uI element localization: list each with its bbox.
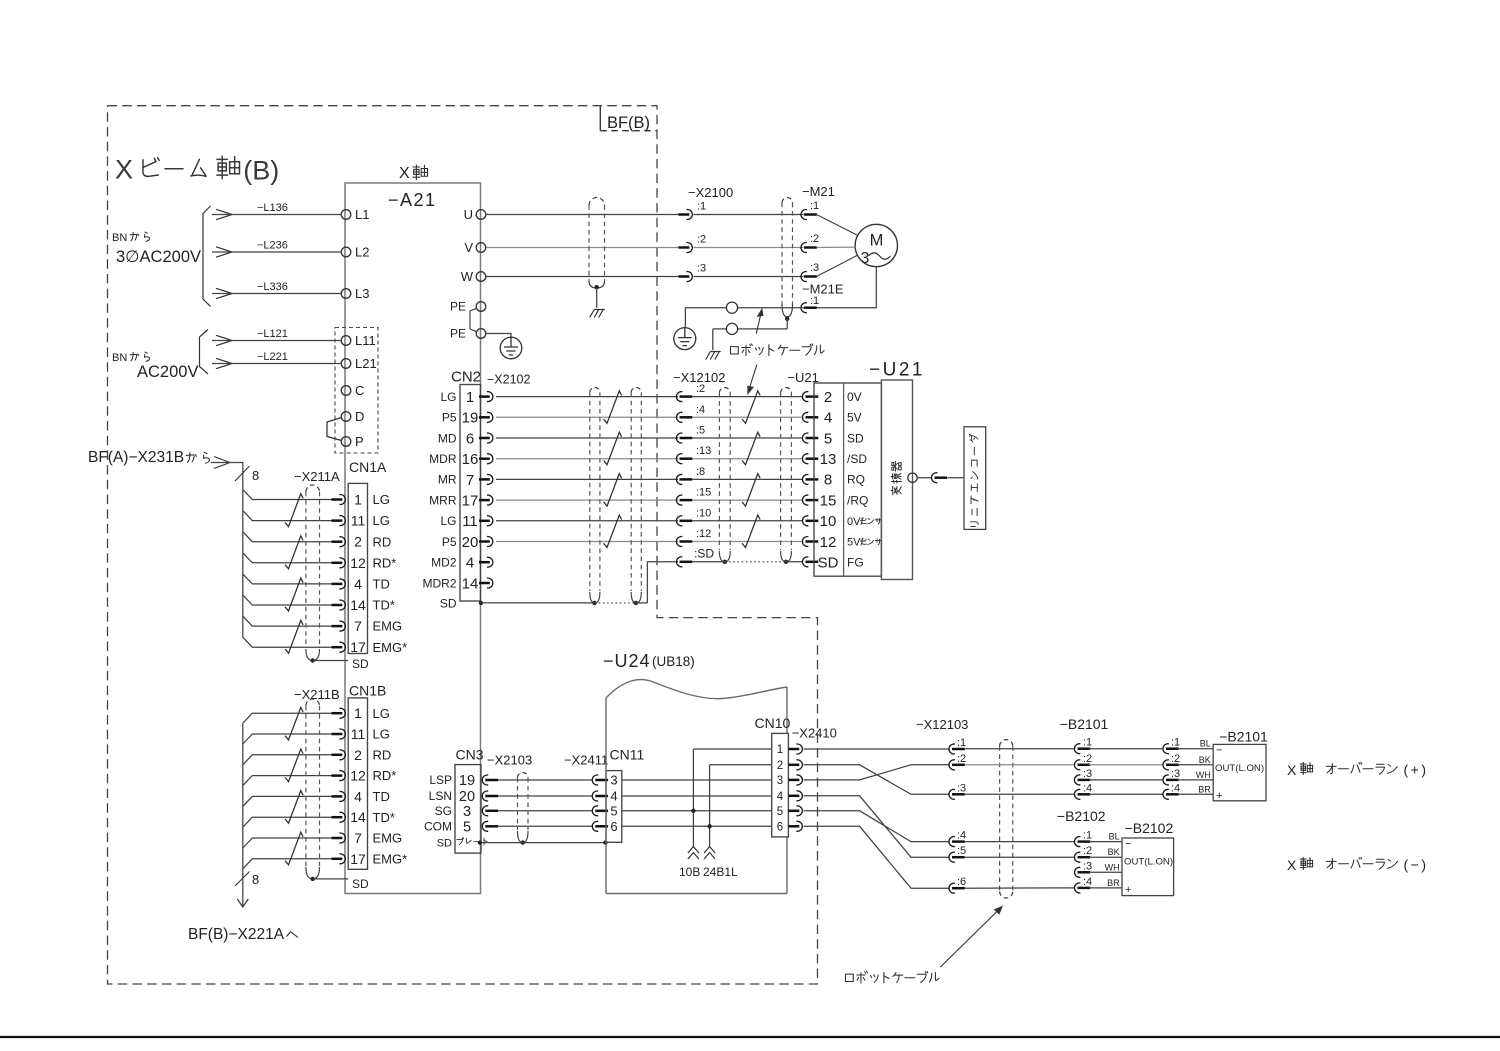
svg-text:6: 6 <box>777 821 783 833</box>
wire X12103 to B2101:2 <box>965 764 1075 766</box>
wire CN10 to X12103:5 <box>804 796 949 857</box>
wire CN10 to X12103:6 <box>804 826 949 888</box>
input arrow −L121 <box>216 335 232 345</box>
svg-text:+: + <box>1216 790 1222 802</box>
connector X2411 row1 <box>592 775 608 785</box>
connector B2102 :4 <box>1074 883 1090 893</box>
connector X211A to CN1A-7 <box>332 621 346 631</box>
dashed border <box>108 106 818 984</box>
svg-text::8: :8 <box>696 466 705 478</box>
svg-text:FG: FG <box>847 556 864 570</box>
svg-text:EMG*: EMG* <box>373 851 408 866</box>
svg-text:BK: BK <box>1108 847 1120 857</box>
twist CN1A pair2 <box>285 536 303 569</box>
wire CN2-7 to X12102:8 <box>496 478 678 480</box>
wire B2101 cable :3 <box>1089 779 1163 781</box>
connector U21 row2 <box>802 412 818 422</box>
svg-text::3: :3 <box>697 263 706 275</box>
svg-text:17: 17 <box>350 639 366 655</box>
svg-text::2: :2 <box>697 234 706 246</box>
wire CN1A pin11 <box>243 511 333 521</box>
wire CN1A pin12 <box>243 553 333 563</box>
wire CN2-17 to X12102:15 <box>496 499 678 501</box>
connector CN10-2 / X2410 <box>789 760 803 770</box>
wire −L121 <box>212 340 341 342</box>
svg-text:1: 1 <box>466 389 474 406</box>
linear encoder box <box>964 427 986 530</box>
connector X211B to CN1B-4 <box>332 791 346 801</box>
svg-text:X: X <box>1287 762 1297 778</box>
connector B2101 col2 :4 <box>1163 789 1179 799</box>
connector X12103:4 <box>949 837 965 847</box>
wire to B2102 sensor BL <box>1089 841 1122 843</box>
svg-text:CN1B: CN1B <box>349 683 386 699</box>
connector M21:2 <box>801 243 817 253</box>
svg-text:WH: WH <box>1105 862 1120 872</box>
svg-text:P: P <box>355 434 364 449</box>
svg-text:5: 5 <box>824 430 832 447</box>
wire U21 to encoder connector <box>917 477 931 479</box>
CN3 SD bus <box>480 842 606 844</box>
twist X12102 pair2 <box>742 432 760 465</box>
wire CN2-1 to X12102:2 <box>496 396 678 398</box>
label X-axis kanji <box>413 165 428 180</box>
svg-text::15: :15 <box>696 487 711 499</box>
X211A shield drain <box>313 660 349 662</box>
svg-text:8: 8 <box>252 468 259 483</box>
input arrow −L221 <box>216 358 232 368</box>
svg-text:8: 8 <box>252 872 259 887</box>
U21 output terminal <box>908 473 917 482</box>
svg-text:/RQ: /RQ <box>847 493 868 507</box>
wire CN10-1 to X12103:1 <box>804 748 949 750</box>
svg-text::4: :4 <box>1083 876 1092 888</box>
svg-text:16: 16 <box>462 451 479 468</box>
svg-text::3: :3 <box>810 262 819 274</box>
wire M21:2 to motor <box>817 246 856 248</box>
24B1L arrows <box>704 847 715 860</box>
shield robot cable X12103 <box>1000 740 1013 747</box>
svg-text:−L136: −L136 <box>257 202 288 214</box>
label robot cable (lower) <box>846 971 940 983</box>
svg-text:EMG*: EMG* <box>373 640 408 655</box>
svg-text:L2: L2 <box>355 245 369 260</box>
wire CN1A pin1 <box>243 490 333 500</box>
wire CN3-3 to CN11 <box>498 810 592 812</box>
connector CN10-4 / X2410 <box>789 791 803 801</box>
plate kana <box>457 838 487 845</box>
wire X12102:5 to U21 <box>693 437 804 439</box>
wire CN1B pin12 <box>243 776 333 786</box>
connector CN2-16 / X2102 <box>479 454 493 464</box>
connector X12102:10 <box>676 516 692 526</box>
wire to B2101 sensor WH <box>1178 779 1214 781</box>
he <box>287 932 298 938</box>
svg-text::1: :1 <box>810 200 819 212</box>
wire CN11-5 to CN10-5 <box>622 810 772 812</box>
svg-text:−L221: −L221 <box>257 351 288 363</box>
connector CN10-6 / X2410 <box>789 821 803 831</box>
sensa kana <box>860 539 881 545</box>
shield to drain wire <box>786 319 788 329</box>
connector CN3 box <box>455 765 481 854</box>
svg-text:20: 20 <box>459 789 475 805</box>
connector X211B to CN1B-2 <box>332 750 346 760</box>
connector CN10-1 / X2410 <box>789 744 803 754</box>
motor earth wire <box>817 267 877 308</box>
svg-text::1: :1 <box>1171 737 1180 749</box>
svg-text:−L121: −L121 <box>257 328 288 340</box>
wire W phase to X2100:3 <box>486 276 679 278</box>
wire to B2101 sensor BR <box>1178 793 1214 795</box>
svg-text::3: :3 <box>1083 768 1092 780</box>
svg-text:X: X <box>115 155 133 185</box>
wire to B2102 sensor BK <box>1089 856 1122 858</box>
svg-text:1: 1 <box>354 705 362 721</box>
svg-text::2: :2 <box>810 233 819 245</box>
svg-text:TD*: TD* <box>373 598 395 613</box>
wire −L221 <box>212 363 341 365</box>
svg-text:−U21: −U21 <box>869 360 925 381</box>
connector X2411 row3 <box>592 806 608 816</box>
svg-text:2: 2 <box>354 534 362 550</box>
svg-text:24B1L: 24B1L <box>703 865 738 879</box>
svg-text:−: − <box>1216 745 1222 757</box>
wire X12102:15 to U21 <box>693 499 804 501</box>
svg-text:19: 19 <box>459 773 475 789</box>
wire CN2-11 to X12102:10 <box>496 520 678 522</box>
wire CN3-5 to CN11 <box>498 825 592 827</box>
shield junction <box>785 317 789 321</box>
svg-text:(UB18): (UB18) <box>652 654 695 669</box>
svg-text:X: X <box>399 165 410 182</box>
shield X211A <box>306 485 320 492</box>
henkanki vertical text <box>891 486 901 495</box>
svg-text:M: M <box>870 232 884 250</box>
svg-text:4: 4 <box>354 576 362 592</box>
svg-text:SG: SG <box>435 804 452 818</box>
leader arrow down <box>749 365 757 391</box>
svg-text:RQ: RQ <box>847 473 865 487</box>
wire CN11-4 to CN10-4 <box>622 795 772 797</box>
connector B2102 :3 <box>1074 867 1090 877</box>
svg-text:CN10: CN10 <box>755 715 791 731</box>
X211B shield drain <box>313 878 349 880</box>
CN2 SD shield bus <box>479 601 483 605</box>
svg-text:BN: BN <box>112 352 127 364</box>
svg-text:LG: LG <box>440 514 456 528</box>
1-phase input group brace <box>200 330 209 375</box>
wire X12102:12 to U21 <box>693 541 804 543</box>
wire X12102:10 to U21 <box>693 520 804 522</box>
svg-text:7: 7 <box>466 472 474 489</box>
svg-text:COM: COM <box>424 820 452 834</box>
svg-text:0V: 0V <box>847 390 862 404</box>
shield drain lower wire <box>738 328 788 330</box>
svg-text:SD: SD <box>352 877 369 891</box>
svg-text:−X211A: −X211A <box>294 469 340 484</box>
24B1L tap <box>709 765 711 848</box>
shield drain junction <box>595 285 599 289</box>
connector X12103:6 <box>949 883 965 893</box>
svg-text::3: :3 <box>1083 860 1092 872</box>
svg-text::5: :5 <box>696 425 705 437</box>
leader arrow <box>940 910 999 968</box>
twist CN1B pair2 <box>285 749 303 782</box>
connector B2101 col1 :4 <box>1074 789 1090 799</box>
connector CN1B box <box>348 698 367 869</box>
wire −L136 <box>212 214 341 216</box>
connector X2411 row2 <box>592 791 608 801</box>
connector X2103 row2 <box>482 791 498 801</box>
svg-text:EMG: EMG <box>373 831 403 846</box>
wire X12103 to B2102:2 <box>965 856 1075 858</box>
svg-text::2: :2 <box>1083 845 1092 857</box>
terminal L21 <box>341 359 351 369</box>
svg-text:−X2100: −X2100 <box>688 185 733 200</box>
connector CN2-1 / X2102 <box>479 392 493 402</box>
wire CN11-3 to CN10-3 <box>622 779 772 781</box>
svg-text:−X12102: −X12102 <box>673 370 725 385</box>
svg-text:MDR2: MDR2 <box>422 576 456 590</box>
sheet bottom border line <box>0 1036 1500 1038</box>
svg-text:P5: P5 <box>442 535 457 549</box>
svg-text:6: 6 <box>466 430 474 447</box>
svg-text:1: 1 <box>777 744 783 756</box>
wire CN10 to X12103:4 <box>804 811 949 842</box>
svg-text:13: 13 <box>820 451 837 468</box>
svg-text:TD: TD <box>373 789 390 804</box>
twist CN1B pair1 <box>285 707 303 740</box>
svg-text:CN2: CN2 <box>451 369 481 386</box>
svg-text:12: 12 <box>350 555 366 571</box>
svg-text:19: 19 <box>462 410 479 427</box>
twist CN1A pair4 <box>285 620 303 653</box>
svg-text::3: :3 <box>1171 768 1180 780</box>
svg-text:BL: BL <box>1200 739 1211 749</box>
connector M21E:1 <box>801 303 817 313</box>
svg-text:MD2: MD2 <box>431 556 457 570</box>
connector B2101 col1 :1 <box>1074 744 1090 754</box>
svg-text:V: V <box>464 240 473 255</box>
CN1A feeder bus <box>211 463 243 638</box>
svg-text:SD: SD <box>818 555 839 572</box>
svg-text:6: 6 <box>610 819 617 834</box>
connector U21 SD <box>802 557 818 567</box>
svg-text:3: 3 <box>861 250 870 267</box>
twist CN2 pair4 <box>604 515 622 548</box>
svg-text:RD: RD <box>373 534 392 549</box>
svg-text:14: 14 <box>462 575 479 592</box>
svg-text::1: :1 <box>810 295 819 307</box>
svg-text:−X12103: −X12103 <box>916 717 968 732</box>
connector X2100:3 <box>679 272 693 282</box>
svg-text:BL: BL <box>1109 832 1120 842</box>
svg-text:17: 17 <box>350 851 366 867</box>
wire X12102:8 to U21 <box>693 478 804 480</box>
svg-text:−B2102: −B2102 <box>1125 820 1174 836</box>
svg-text:RD*: RD* <box>373 768 397 783</box>
svg-text:4: 4 <box>610 789 617 804</box>
connector B2101 col2 :2 <box>1163 760 1179 770</box>
twist CN1A pair3 <box>285 578 303 611</box>
wire X12103 to B2102:1 <box>965 841 1075 843</box>
arrow from BF(A) <box>214 457 230 469</box>
connector U21 row6 <box>802 495 818 505</box>
twist X12102 pair3 <box>742 474 760 507</box>
svg-text::13: :13 <box>696 445 711 457</box>
CN1B feeder bus <box>242 723 244 906</box>
svg-text:−X211B: −X211B <box>294 687 340 702</box>
svg-text:WH: WH <box>1196 770 1211 780</box>
svg-text:−L336: −L336 <box>257 281 288 293</box>
connector X12103:1 <box>949 744 965 754</box>
wire U phase to X2100:1 <box>486 214 679 216</box>
svg-text:15: 15 <box>820 492 837 509</box>
wire X12103 to B2102:4 <box>965 887 1075 889</box>
svg-text::4: :4 <box>696 404 705 416</box>
svg-text::2: :2 <box>1083 753 1092 765</box>
chassis ground (U/V/W shield) <box>590 310 605 318</box>
drain to chassis <box>712 329 714 350</box>
wire CN3-19 to CN11 <box>498 779 592 781</box>
svg-text::6: :6 <box>957 876 966 888</box>
svg-text:PE: PE <box>450 300 466 314</box>
kara <box>130 232 149 241</box>
svg-text:/SD: /SD <box>847 452 867 466</box>
connector M21:3 <box>801 272 817 282</box>
PE bracket <box>470 309 476 332</box>
svg-text::1: :1 <box>957 737 966 749</box>
svg-text:(−): (−) <box>1404 857 1429 873</box>
svg-text:C: C <box>355 383 364 398</box>
svg-text:(B): (B) <box>243 156 279 186</box>
PE earth wire <box>486 334 511 338</box>
connector CN2 box <box>460 385 481 602</box>
connector X211A to CN1A-4 <box>332 579 346 589</box>
connector CN2-7 / X2102 <box>479 474 493 484</box>
shield U-turn <box>782 304 793 317</box>
svg-text:RD: RD <box>373 747 392 762</box>
terminal circle A <box>726 302 737 313</box>
connector X12103:5 <box>949 852 965 862</box>
terminal PE1 <box>476 302 486 312</box>
svg-text:BF(A)−X231B: BF(A)−X231B <box>88 449 184 466</box>
connector X12103:3 <box>949 789 965 799</box>
terminal circle B <box>726 323 737 334</box>
svg-text:−M21E: −M21E <box>802 282 844 297</box>
svg-text::4: :4 <box>957 830 966 842</box>
wire B2101 cable :2 <box>1089 764 1163 766</box>
:SD dotted shield link <box>693 561 725 563</box>
shield robot cable M21 <box>781 203 783 304</box>
svg-text:SD: SD <box>437 838 452 850</box>
svg-text:P5: P5 <box>442 411 457 425</box>
D-P jumper <box>327 418 342 441</box>
svg-text:PE: PE <box>450 327 466 341</box>
wire B2101 cable :4 <box>1089 793 1163 795</box>
svg-text:−: − <box>1125 838 1131 850</box>
connector X12103:2 <box>949 760 965 770</box>
wire X12102:2 to U21 <box>693 396 804 398</box>
svg-text:MDR: MDR <box>429 452 457 466</box>
svg-text::2: :2 <box>1171 753 1180 765</box>
svg-text:7: 7 <box>354 618 362 634</box>
connector X12102:8 <box>676 474 692 484</box>
svg-text:BR: BR <box>1198 784 1211 794</box>
wire M21:3 to motor <box>817 256 858 277</box>
protective earth (robot cable) <box>674 328 696 350</box>
svg-text:LG: LG <box>373 513 390 528</box>
connector X2103 row4 <box>482 821 498 831</box>
svg-text:AC200V: AC200V <box>137 363 198 381</box>
wire CN2-6 to X12102:5 <box>496 437 678 439</box>
wire to B2102 sensor WH <box>1089 871 1122 873</box>
shield X211B <box>306 699 320 706</box>
svg-text::SD: :SD <box>694 547 714 561</box>
svg-text:SD: SD <box>440 597 457 611</box>
servo amplifier -A21 box <box>345 183 481 894</box>
svg-text:SD: SD <box>352 657 369 671</box>
wire CN1B pin14 <box>243 817 333 827</box>
wire X12102:4 to U21 <box>693 416 804 418</box>
connector U21 row3 <box>802 433 818 443</box>
svg-text:10: 10 <box>820 513 837 530</box>
terminal V <box>476 243 486 253</box>
title kana <box>143 158 206 177</box>
terminal L3 <box>341 289 351 299</box>
svg-text:4: 4 <box>824 410 832 427</box>
svg-text:CN1A: CN1A <box>349 459 387 475</box>
svg-text:RD*: RD* <box>373 555 397 570</box>
svg-text::1: :1 <box>1083 737 1092 749</box>
wire −L336 <box>212 293 341 295</box>
M21E pe wire segs <box>738 307 804 309</box>
twist CN2 pair1 <box>604 391 622 424</box>
svg-text:12: 12 <box>820 534 837 551</box>
chassis ground (robot cable) <box>706 352 721 360</box>
wire CN1B pin7 <box>243 838 333 848</box>
svg-text:2: 2 <box>777 760 783 772</box>
svg-text:LG: LG <box>373 492 390 507</box>
connector B2102 :1 <box>1074 837 1090 847</box>
connector CN11 box <box>606 771 622 843</box>
svg-text:11: 11 <box>351 726 366 742</box>
shield X12102 cable B <box>781 387 792 392</box>
SD riser to :SD <box>647 562 678 603</box>
sensa kana <box>860 518 881 524</box>
svg-text:−M21: −M21 <box>802 184 835 199</box>
svg-text:+: + <box>1125 884 1131 896</box>
wire CN11-6 to CN10-6 <box>622 825 772 827</box>
twist CN2 pair3 <box>604 474 622 507</box>
leader arrow up <box>756 312 761 334</box>
svg-text:U: U <box>464 207 473 222</box>
connector X12102:4 <box>676 412 692 422</box>
connector CN2-11 / X2102 <box>479 516 493 526</box>
wire CN1B pin1 <box>243 713 333 723</box>
svg-text:CN3: CN3 <box>456 747 484 763</box>
svg-text:LG: LG <box>373 706 390 721</box>
svg-text::1: :1 <box>697 201 706 213</box>
connector CN2-17 / X2102 <box>479 495 493 505</box>
connector X211A to CN1A-1 <box>332 495 346 505</box>
svg-text:−U24: −U24 <box>603 651 651 671</box>
svg-text:4: 4 <box>777 791 784 803</box>
10B arrows <box>688 847 699 860</box>
kara <box>186 452 209 463</box>
wire CN1A pin2 <box>243 532 333 542</box>
